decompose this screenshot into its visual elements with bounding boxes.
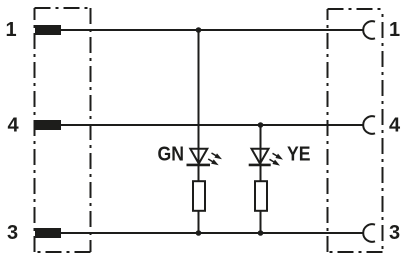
junction node on wire 1	[196, 27, 202, 33]
LED YE (yellow) diode symbol	[249, 149, 283, 166]
svg-text:YE: YE	[287, 144, 311, 166]
wire: resistor R2 to wire3	[260, 211, 262, 233]
resistor R1	[193, 181, 205, 211]
resistor R2	[255, 181, 267, 211]
LED GN (green) diode symbol	[187, 149, 223, 166]
male contact pin 4	[35, 120, 61, 130]
svg-text:1: 1	[5, 19, 16, 41]
wire: vertical branch from node on wire1 down to resistor R1	[198, 30, 200, 181]
female socket contact 1	[363, 21, 375, 39]
wire: vertical branch from node on wire4 down to resistor R2	[260, 125, 262, 181]
svg-text:4: 4	[7, 115, 19, 137]
male contact pin 3	[35, 228, 61, 238]
junction node wire 3 / LED YE branch	[258, 230, 264, 236]
wire: resistor R1 to wire3	[198, 211, 200, 233]
female socket contact 3	[363, 224, 375, 242]
wire pin1 to socket1	[60, 29, 363, 31]
male contact pin 1	[35, 25, 61, 35]
wire pin3 to socket3	[60, 232, 363, 234]
left connector outline (dash-dot box)	[35, 8, 91, 252]
right connector outline (dash-dot box)	[328, 9, 383, 252]
svg-text:1: 1	[389, 19, 400, 41]
svg-text:3: 3	[389, 222, 400, 244]
junction node on wire 4	[258, 122, 264, 128]
junction node wire 3 / LED GN branch	[196, 230, 202, 236]
wire pin4 to socket4	[60, 124, 363, 126]
female socket contact 4	[363, 116, 375, 134]
svg-text:GN: GN	[158, 144, 185, 166]
svg-text:4: 4	[389, 115, 401, 137]
svg-text:3: 3	[7, 222, 18, 244]
